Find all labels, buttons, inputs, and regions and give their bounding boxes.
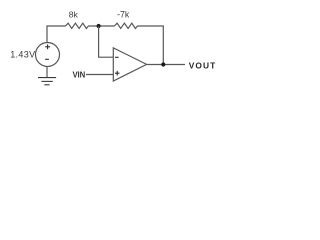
svg-text:8k: 8k	[69, 9, 79, 19]
svg-text:1.43V: 1.43V	[10, 50, 35, 60]
wire: op-amp output to VOUT	[147, 64, 185, 66]
node A junction dot	[97, 24, 101, 28]
op-amp plus symbol	[115, 72, 120, 74]
op-amp U1	[113, 48, 146, 81]
svg-text:-7k: -7k	[117, 10, 130, 20]
resistor R1 8k	[66, 23, 89, 28]
ground	[38, 77, 56, 79]
wire: R1 to node A	[89, 25, 115, 27]
output node junction dot	[161, 62, 165, 66]
wire: source bottom to ground	[46, 67, 48, 78]
svg-text:VIN: VIN	[73, 70, 86, 79]
wire: node A down to inverting input	[99, 26, 114, 57]
source plus sign	[45, 46, 50, 48]
wire: R2 to right corner, down to output node	[138, 26, 164, 65]
wire: source top to rail	[46, 26, 48, 43]
op-amp minus symbol	[115, 56, 119, 58]
source minus sign	[45, 58, 49, 60]
wire: VIN to non-inverting input	[86, 74, 113, 76]
svg-text:VOUT: VOUT	[189, 61, 217, 71]
resistor R2 -7k	[115, 23, 138, 28]
voltage source V1	[36, 43, 60, 67]
wire: rail from corner to R1	[46, 25, 65, 27]
